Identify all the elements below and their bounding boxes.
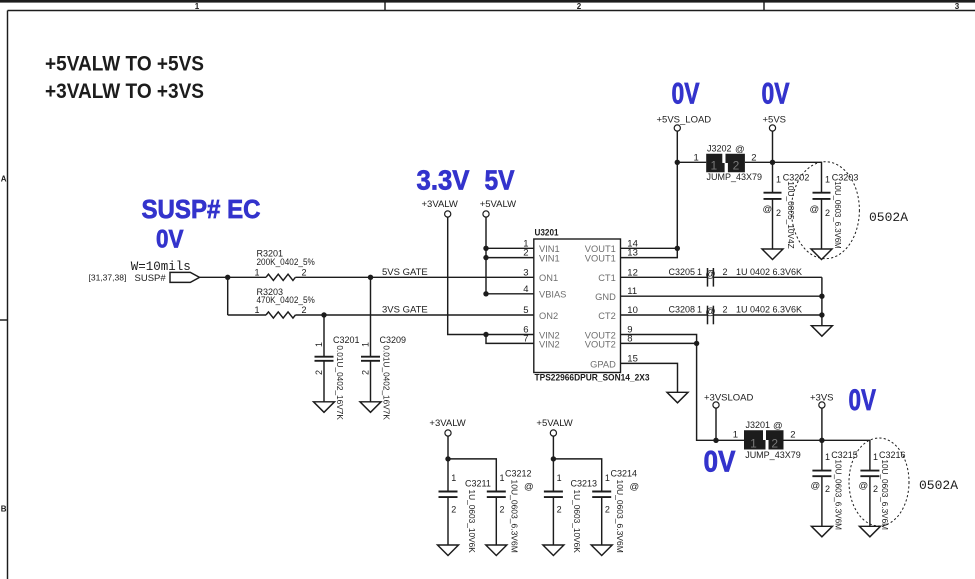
svg-text:@: @ bbox=[810, 204, 820, 215]
svg-text:VOUT1: VOUT1 bbox=[585, 254, 616, 264]
power +3VSLOAD bbox=[704, 392, 754, 408]
svg-text:+5VALW: +5VALW bbox=[480, 199, 516, 210]
jumper J3201 bbox=[733, 420, 801, 460]
svg-text:0.01U_0402_16V7K: 0.01U_0402_16V7K bbox=[335, 345, 344, 420]
wire +5VALW down bbox=[485, 217, 487, 294]
svg-text:1: 1 bbox=[697, 305, 702, 315]
wire to R3203 bbox=[228, 314, 266, 316]
svg-text:+5VALW TO +5VS: +5VALW TO +5VS bbox=[45, 52, 204, 76]
svg-text:470K_0402_5%: 470K_0402_5% bbox=[257, 295, 315, 305]
svg-text:@: @ bbox=[735, 144, 745, 155]
capacitor C3208 (series) bbox=[669, 305, 803, 325]
junction pin8/9 bbox=[694, 341, 699, 346]
junction pin4 bbox=[483, 291, 488, 296]
op-amp U3201 TPS22966 load switch bbox=[523, 228, 649, 384]
svg-text:0502A: 0502A bbox=[869, 210, 908, 225]
svg-text:0V: 0V bbox=[762, 78, 790, 111]
svg-text:@: @ bbox=[706, 307, 716, 318]
wire CT1 pin12 bbox=[621, 276, 708, 278]
ground for C3209 bbox=[360, 402, 381, 413]
svg-text:1: 1 bbox=[873, 452, 878, 462]
capacitor C3215 bbox=[811, 440, 858, 530]
ground for C3201 bbox=[314, 402, 335, 413]
svg-text:2: 2 bbox=[733, 159, 740, 173]
stuffing ellipse 0502A (top) bbox=[791, 162, 859, 259]
svg-text:+3VALW: +3VALW bbox=[422, 199, 458, 210]
svg-text:1: 1 bbox=[694, 153, 699, 164]
svg-text:+5VS: +5VS bbox=[763, 114, 787, 125]
power +5VS bbox=[763, 114, 787, 131]
svg-text:TPS22966DPUR_SON14_2X3: TPS22966DPUR_SON14_2X3 bbox=[535, 373, 650, 384]
svg-text:@: @ bbox=[859, 481, 869, 492]
wire pin9 VOUT2 bbox=[621, 335, 697, 344]
wire J3202 pin2 out bbox=[745, 161, 773, 163]
capacitor C3213 bbox=[544, 459, 597, 553]
svg-text:2: 2 bbox=[302, 267, 307, 277]
svg-text:@: @ bbox=[811, 481, 821, 492]
resistor R3201 bbox=[255, 249, 315, 281]
svg-text:1: 1 bbox=[500, 473, 505, 483]
svg-text:@: @ bbox=[524, 482, 534, 493]
wire CT2 to gnd riser bbox=[713, 314, 822, 316]
svg-text:CT2: CT2 bbox=[598, 311, 616, 321]
svg-text:10U_0603_6.3V6M: 10U_0603_6.3V6M bbox=[833, 181, 842, 249]
svg-text:VIN2: VIN2 bbox=[539, 339, 560, 349]
svg-text:1: 1 bbox=[314, 342, 324, 347]
svg-text:1: 1 bbox=[710, 159, 717, 173]
svg-text:2: 2 bbox=[723, 305, 728, 315]
svg-text:3.3V: 3.3V bbox=[417, 165, 470, 196]
ground for C3212 bbox=[486, 545, 507, 556]
svg-text:J3202: J3202 bbox=[707, 144, 732, 154]
svg-text:3: 3 bbox=[955, 2, 960, 11]
svg-text:2: 2 bbox=[451, 505, 456, 515]
svg-text:2: 2 bbox=[825, 484, 830, 494]
ground for C3202 bbox=[762, 249, 783, 260]
wire VOUT2 down to J3201 bbox=[697, 343, 744, 440]
junction pin1 bbox=[483, 246, 488, 251]
svg-text:200K_0402_5%: 200K_0402_5% bbox=[257, 257, 315, 267]
svg-text:JUMP_43X79: JUMP_43X79 bbox=[707, 172, 763, 182]
wire +5VS down to C3202 bbox=[772, 131, 774, 192]
svg-text:1U_0603_10V6K: 1U_0603_10V6K bbox=[467, 490, 476, 554]
power +3VS bbox=[810, 392, 834, 408]
svg-text:1U 0402 6.3V6K: 1U 0402 6.3V6K bbox=[736, 305, 802, 315]
power +3VALW (top) bbox=[422, 199, 458, 217]
svg-text:C3209: C3209 bbox=[380, 335, 407, 345]
junction C3211/C3212 bbox=[445, 456, 450, 461]
svg-text:2: 2 bbox=[825, 208, 830, 218]
wire to R3201 bbox=[228, 276, 266, 278]
ground for C3216 bbox=[859, 526, 880, 537]
svg-text:4: 4 bbox=[523, 284, 528, 295]
wire +3VALW to VIN2 bbox=[448, 217, 534, 334]
svg-text:0502A: 0502A bbox=[919, 478, 958, 493]
svg-text:1: 1 bbox=[750, 436, 757, 450]
svg-text:2: 2 bbox=[577, 2, 582, 11]
wire pin2 bbox=[486, 257, 534, 259]
ground for C3215 bbox=[811, 526, 832, 537]
svg-text:SUSP#: SUSP# bbox=[135, 273, 167, 284]
wire +3VSLOAD down bbox=[715, 408, 717, 440]
svg-text:10U_0603_6.3V6M: 10U_0603_6.3V6M bbox=[833, 460, 842, 531]
svg-text:1: 1 bbox=[605, 473, 610, 483]
svg-text:2: 2 bbox=[523, 248, 528, 259]
junction pin6/pin7 branch bbox=[483, 332, 488, 337]
wire pin1 bbox=[486, 247, 534, 249]
junction C3209 on 5VS GATE bbox=[368, 275, 373, 280]
junction C3201 on 3VS GATE bbox=[321, 312, 326, 317]
svg-text:SUSP# EC: SUSP# EC bbox=[142, 194, 261, 224]
svg-text:1: 1 bbox=[825, 452, 830, 462]
svg-text:1: 1 bbox=[451, 473, 456, 483]
svg-text:C3201: C3201 bbox=[333, 335, 360, 345]
junction +5VS / C3202 bbox=[770, 160, 775, 165]
power +5VS_LOAD bbox=[657, 114, 712, 131]
svg-text:C3213: C3213 bbox=[571, 479, 598, 489]
svg-text:C3214: C3214 bbox=[611, 469, 638, 479]
svg-text:+3VALW TO +3VS: +3VALW TO +3VS bbox=[45, 79, 204, 103]
svg-text:0V: 0V bbox=[156, 226, 184, 254]
junction GND riser bbox=[819, 294, 824, 299]
wire to J3202 pin1 bbox=[677, 161, 706, 163]
svg-text:2: 2 bbox=[771, 436, 778, 450]
svg-text:0V: 0V bbox=[672, 78, 700, 111]
wire SUSP# to junction bbox=[200, 276, 228, 278]
wire to C3216 bbox=[822, 440, 870, 470]
power +5VALW (top) bbox=[480, 199, 516, 217]
wire gnd riser bbox=[821, 277, 823, 325]
wire to C3212 bbox=[448, 459, 496, 491]
wire to pin7 bbox=[486, 335, 534, 344]
wire GPAD pin15 bbox=[621, 363, 678, 392]
wire CT1 to gnd riser bbox=[713, 276, 822, 278]
svg-text:A: A bbox=[1, 175, 7, 184]
wire +3VS down bbox=[821, 408, 823, 440]
wire pin13 VOUT1 bbox=[621, 248, 678, 257]
svg-text:1: 1 bbox=[255, 267, 260, 277]
ground for CT riser bbox=[811, 326, 832, 337]
svg-text:1U_0603_10V6K: 1U_0603_10V6K bbox=[572, 490, 581, 554]
wire to C3203 bbox=[773, 162, 822, 192]
svg-text:2: 2 bbox=[873, 484, 878, 494]
svg-text:[31,37,38]: [31,37,38] bbox=[89, 273, 127, 283]
svg-text:5V: 5V bbox=[485, 165, 515, 196]
svg-text:2: 2 bbox=[361, 370, 371, 375]
svg-text:VIN1: VIN1 bbox=[539, 254, 560, 264]
svg-text:10U_0805_10V4Z: 10U_0805_10V4Z bbox=[786, 181, 795, 249]
svg-text:+3VALW: +3VALW bbox=[429, 418, 465, 429]
jumper J3202 bbox=[694, 144, 763, 182]
wire +5VALW down bbox=[552, 436, 554, 459]
capacitor C3203 bbox=[810, 172, 859, 249]
wire +3VALW down bbox=[447, 436, 449, 459]
svg-text:@: @ bbox=[773, 421, 783, 432]
svg-text:GPAD: GPAD bbox=[590, 359, 616, 369]
svg-text:C3208: C3208 bbox=[669, 305, 696, 315]
svg-text:J3201: J3201 bbox=[746, 420, 771, 430]
capacitor C3212 bbox=[487, 469, 534, 553]
svg-text:1: 1 bbox=[776, 174, 781, 184]
ground for C3213 bbox=[543, 545, 564, 556]
junction pin2 bbox=[483, 255, 488, 260]
wire CT2 pin10 bbox=[621, 314, 708, 316]
svg-text:ON2: ON2 bbox=[539, 311, 558, 321]
svg-text:1: 1 bbox=[361, 342, 371, 347]
svg-text:1: 1 bbox=[195, 2, 200, 11]
svg-text:0.01U_0402_16V7K: 0.01U_0402_16V7K bbox=[381, 345, 390, 420]
ground for C3203 bbox=[811, 249, 832, 260]
svg-text:7: 7 bbox=[523, 333, 528, 344]
svg-text:@: @ bbox=[763, 204, 773, 215]
capacitor C3216 bbox=[859, 450, 906, 530]
svg-text:5: 5 bbox=[523, 305, 528, 316]
wire +5VS_LOAD down bbox=[676, 131, 678, 248]
junction +3VS / C3215 bbox=[819, 438, 824, 443]
svg-text:C3211: C3211 bbox=[465, 479, 491, 489]
svg-text:1: 1 bbox=[697, 267, 702, 277]
capacitor C3201 bbox=[314, 315, 360, 420]
wire pin14 VOUT1 bbox=[621, 247, 678, 249]
svg-text:C3205: C3205 bbox=[669, 267, 696, 277]
power +3VALW (bottom) bbox=[429, 418, 465, 436]
svg-text:2: 2 bbox=[302, 305, 307, 315]
wire pin4 bbox=[486, 293, 534, 295]
svg-text:ON1: ON1 bbox=[539, 273, 558, 283]
wire pin8 VOUT2 bbox=[621, 342, 697, 344]
capacitor C3205 (series) bbox=[669, 267, 803, 287]
svg-text:C3216: C3216 bbox=[879, 450, 906, 460]
svg-text:2: 2 bbox=[776, 208, 781, 218]
junction pin13/14 bbox=[675, 246, 680, 251]
svg-text:+5VALW: +5VALW bbox=[536, 418, 572, 429]
frame (decorative) bbox=[0, 0, 975, 3]
svg-text:2: 2 bbox=[314, 370, 324, 375]
svg-text:@: @ bbox=[630, 482, 640, 493]
power +5VALW (bottom) bbox=[536, 418, 572, 436]
svg-text:2: 2 bbox=[500, 505, 505, 515]
svg-text:0V: 0V bbox=[849, 384, 877, 417]
svg-text:@: @ bbox=[706, 269, 716, 280]
svg-text:+5VS_LOAD: +5VS_LOAD bbox=[657, 114, 712, 125]
svg-text:3VS GATE: 3VS GATE bbox=[382, 305, 428, 316]
junction SUSP# split bbox=[225, 275, 230, 280]
wire to C3214 bbox=[553, 459, 601, 491]
svg-text:2: 2 bbox=[790, 430, 795, 441]
junction to J3202 bbox=[675, 160, 680, 165]
wire J3201 pin2 out bbox=[784, 439, 822, 441]
svg-text:1: 1 bbox=[255, 305, 260, 315]
svg-text:VBIAS: VBIAS bbox=[539, 290, 566, 300]
capacitor C3202 bbox=[763, 172, 810, 249]
svg-text:0V: 0V bbox=[704, 446, 736, 479]
ground for C3214 bbox=[591, 545, 612, 556]
ground for C3211 bbox=[438, 545, 459, 556]
svg-text:10U_0603_6.3V6M: 10U_0603_6.3V6M bbox=[510, 480, 519, 553]
svg-text:2: 2 bbox=[723, 267, 728, 277]
capacitor C3211 bbox=[439, 459, 491, 553]
svg-text:5VS GATE: 5VS GATE bbox=[382, 267, 428, 278]
svg-text:2: 2 bbox=[605, 505, 610, 515]
svg-text:10U_0603_6.3V6M: 10U_0603_6.3V6M bbox=[615, 480, 624, 553]
capacitor C3209 bbox=[361, 277, 407, 420]
svg-text:1: 1 bbox=[733, 430, 738, 441]
svg-text:3: 3 bbox=[523, 267, 528, 278]
svg-text:GND: GND bbox=[595, 292, 616, 302]
capacitor C3214 bbox=[592, 469, 639, 553]
stuffing ellipse 0502A (bottom) bbox=[849, 438, 909, 526]
wire GND pin11 bbox=[621, 295, 822, 297]
svg-text:VOUT2: VOUT2 bbox=[585, 339, 616, 349]
svg-text:B: B bbox=[1, 505, 7, 514]
svg-text:1: 1 bbox=[825, 174, 830, 184]
svg-text:JUMP_43X79: JUMP_43X79 bbox=[745, 450, 801, 460]
ground for GPAD bbox=[667, 392, 688, 403]
svg-text:2: 2 bbox=[557, 505, 562, 515]
svg-text:1U 0402 6.3V6K: 1U 0402 6.3V6K bbox=[736, 267, 802, 277]
junction CT2 riser bbox=[819, 312, 824, 317]
resistor R3203 bbox=[255, 287, 315, 318]
wire 3VS GATE net bbox=[295, 314, 533, 316]
junction C3213/C3214 bbox=[551, 456, 556, 461]
svg-text:1: 1 bbox=[557, 473, 562, 483]
junction +3VSLOAD bbox=[713, 438, 718, 443]
svg-text:U3201: U3201 bbox=[535, 228, 560, 239]
svg-text:+3VSLOAD: +3VSLOAD bbox=[704, 392, 754, 403]
svg-text:CT1: CT1 bbox=[598, 273, 616, 283]
wire 5VS GATE net bbox=[295, 276, 533, 278]
svg-text:10U_0603_6.3V6M: 10U_0603_6.3V6M bbox=[880, 460, 889, 531]
svg-text:C3212: C3212 bbox=[505, 469, 532, 479]
